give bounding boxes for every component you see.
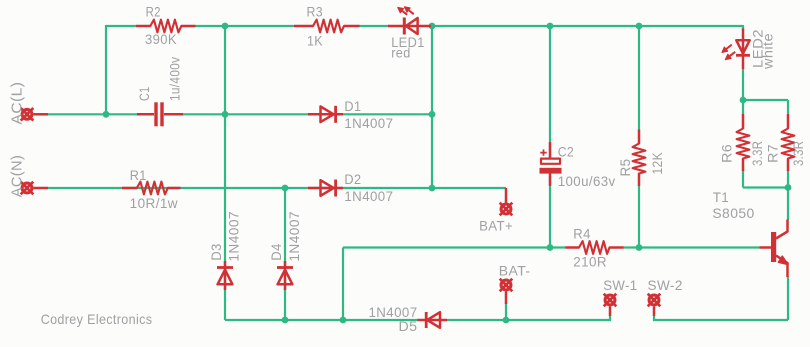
- svg-text:12K: 12K: [650, 152, 665, 175]
- node bottom x343: [340, 317, 347, 324]
- terminal BAT+ stub: [505, 188, 508, 203]
- svg-text:Codrey Electronics: Codrey Electronics: [41, 311, 153, 327]
- svg-text:R3: R3: [307, 5, 324, 20]
- wire vertical x=343: [342, 248, 344, 321]
- terminal AC(N) pin stub: [34, 187, 49, 190]
- resistor R2: [136, 25, 150, 28]
- capacitor C2: [549, 142, 552, 159]
- wire R5 column upper: [638, 26, 640, 130]
- node top rail x639: [636, 23, 643, 30]
- diode D5: [418, 319, 448, 322]
- diode D3: [224, 261, 227, 290]
- svg-text:210R: 210R: [573, 255, 607, 270]
- svg-text:C2: C2: [558, 145, 574, 160]
- svg-text:1K: 1K: [307, 34, 323, 49]
- wire vertical x=285 (AC N to bottom rail): [284, 188, 286, 320]
- wire R6/R7 top link: [743, 99, 788, 101]
- diode D4: [284, 261, 287, 290]
- resistor R1: [122, 187, 137, 190]
- LED2 emission arrows: [725, 45, 732, 51]
- resistor R7: [787, 114, 790, 129]
- svg-text:R2: R2: [146, 5, 161, 20]
- terminal AC(L) pin stub: [34, 113, 49, 116]
- wire BAT- down: [505, 303, 507, 320]
- svg-text:AC(N): AC(N): [9, 155, 26, 197]
- diode D2: [308, 187, 343, 190]
- transistor T1 base stub: [760, 246, 772, 249]
- svg-text:1N4007: 1N4007: [287, 211, 302, 262]
- svg-text:D4: D4: [269, 243, 284, 260]
- svg-text:R6: R6: [720, 144, 735, 163]
- wire emitter down: [787, 277, 789, 321]
- wire AC(L) row left of C1: [47, 113, 154, 115]
- node ACL x106: [103, 111, 110, 118]
- svg-text:D5: D5: [399, 319, 418, 334]
- svg-text:1N4007: 1N4007: [344, 189, 393, 204]
- svg-text:1N4007: 1N4007: [226, 211, 241, 262]
- node ACL x432: [429, 111, 436, 118]
- resistor R4: [566, 246, 580, 249]
- wire bottom rail left of D5: [225, 319, 418, 321]
- node top rail x225: [222, 23, 229, 30]
- node R6R7 bottom: [785, 184, 792, 191]
- terminal BAT-: [500, 279, 513, 292]
- diode D1: [308, 113, 343, 116]
- svg-text:D2: D2: [344, 172, 361, 187]
- svg-text:white: white: [760, 33, 775, 70]
- svg-text:R7: R7: [766, 144, 781, 163]
- svg-text:R5: R5: [618, 159, 633, 177]
- terminal BAT- stub: [505, 292, 508, 305]
- svg-text:1u/400v: 1u/400v: [167, 57, 182, 101]
- svg-text:R4: R4: [573, 227, 591, 242]
- wire top rail segment 1: [106, 25, 136, 27]
- svg-text:1N4007: 1N4007: [344, 116, 393, 131]
- svg-text:100u/63v: 100u/63v: [558, 174, 616, 189]
- transistor T1 collector: [776, 220, 788, 239]
- svg-text:BAT-: BAT-: [499, 263, 531, 279]
- wire collector: [787, 188, 789, 221]
- terminal SW-2 stub: [653, 307, 656, 317]
- wire BAT+ branch: [432, 187, 506, 189]
- wire R4 row left: [343, 246, 566, 248]
- svg-text:red: red: [391, 46, 411, 61]
- svg-text:BAT+: BAT+: [479, 218, 513, 234]
- node bottom x285: [282, 317, 289, 324]
- node R4 x550: [547, 244, 554, 251]
- node LED2 bottom: [740, 97, 747, 104]
- transistor T1 body: [771, 232, 776, 262]
- resistor R5: [638, 130, 641, 144]
- svg-text:AC(L): AC(L): [9, 82, 26, 125]
- node ACN x285: [282, 185, 289, 192]
- node bottom x506: [503, 317, 510, 324]
- resistor R3: [294, 25, 313, 28]
- wire R7 bottom lead: [787, 171, 789, 188]
- wire vertical x=432: [431, 26, 433, 188]
- svg-text:S8050: S8050: [712, 206, 754, 221]
- node ACN x432: [429, 185, 436, 192]
- svg-text:SW-1: SW-1: [603, 277, 637, 293]
- wire bottom rail right: [654, 315, 788, 320]
- wire AC(L) row right of C1: [164, 113, 432, 115]
- svg-text:10R/1w: 10R/1w: [130, 196, 178, 211]
- terminal AC(N): [21, 182, 34, 195]
- node top rail x432: [429, 23, 436, 30]
- wire C2 column lower: [549, 176, 551, 248]
- wire C2 column upper: [549, 26, 551, 157]
- node top rail x550: [547, 23, 554, 30]
- svg-text:D3: D3: [209, 243, 224, 260]
- wire left vertical x=106: [105, 25, 107, 114]
- svg-text:SW-2: SW-2: [648, 277, 683, 293]
- LED LED2: [742, 29, 745, 70]
- node ACL x225: [222, 111, 229, 118]
- svg-text:R1: R1: [130, 168, 147, 183]
- svg-text:D1: D1: [344, 99, 361, 114]
- capacitor C1: [137, 113, 154, 116]
- C2 plus sign: [540, 149, 546, 155]
- svg-text:3.3R: 3.3R: [791, 141, 806, 166]
- resistor R6: [742, 114, 745, 129]
- svg-text:C1: C1: [137, 87, 152, 102]
- terminal SW-1: [604, 294, 617, 307]
- transistor T1 emitter: [776, 256, 788, 278]
- node R4 x639: [636, 244, 643, 251]
- svg-text:390K: 390K: [145, 32, 177, 47]
- wire LED2 to R6 node: [742, 69, 744, 115]
- wire vertical x=225 (top rail to bottom rail): [224, 26, 226, 320]
- wire R5 column lower: [638, 186, 640, 248]
- terminal SW-2: [648, 294, 661, 307]
- wire R6 bottom lead: [742, 171, 744, 188]
- terminal SW-1 stub: [609, 307, 612, 317]
- wire R6/R7 bottom link: [743, 186, 788, 188]
- terminal AC(L): [21, 108, 34, 121]
- terminal BAT+: [500, 203, 513, 216]
- wire AC(N) row: [47, 187, 432, 189]
- wire top rail segment 4 (LED1 to corner): [431, 25, 743, 27]
- wire top rail segment 2 (R2 to R3): [196, 25, 295, 27]
- wire top rail segment 3 (R3 to LED1): [360, 25, 390, 27]
- LED LED1: [388, 25, 431, 28]
- wire R4 to T1 base: [623, 246, 760, 248]
- svg-text:T1: T1: [713, 190, 730, 205]
- wire R7 top lead: [787, 100, 789, 115]
- wire LED2 column top corner: [742, 25, 744, 30]
- svg-text:3.3R: 3.3R: [750, 141, 765, 166]
- svg-text:1N4007: 1N4007: [369, 305, 418, 320]
- wire bottom rail D5 to SW-1: [447, 315, 610, 320]
- LED1 emission arrows: [401, 10, 408, 15]
